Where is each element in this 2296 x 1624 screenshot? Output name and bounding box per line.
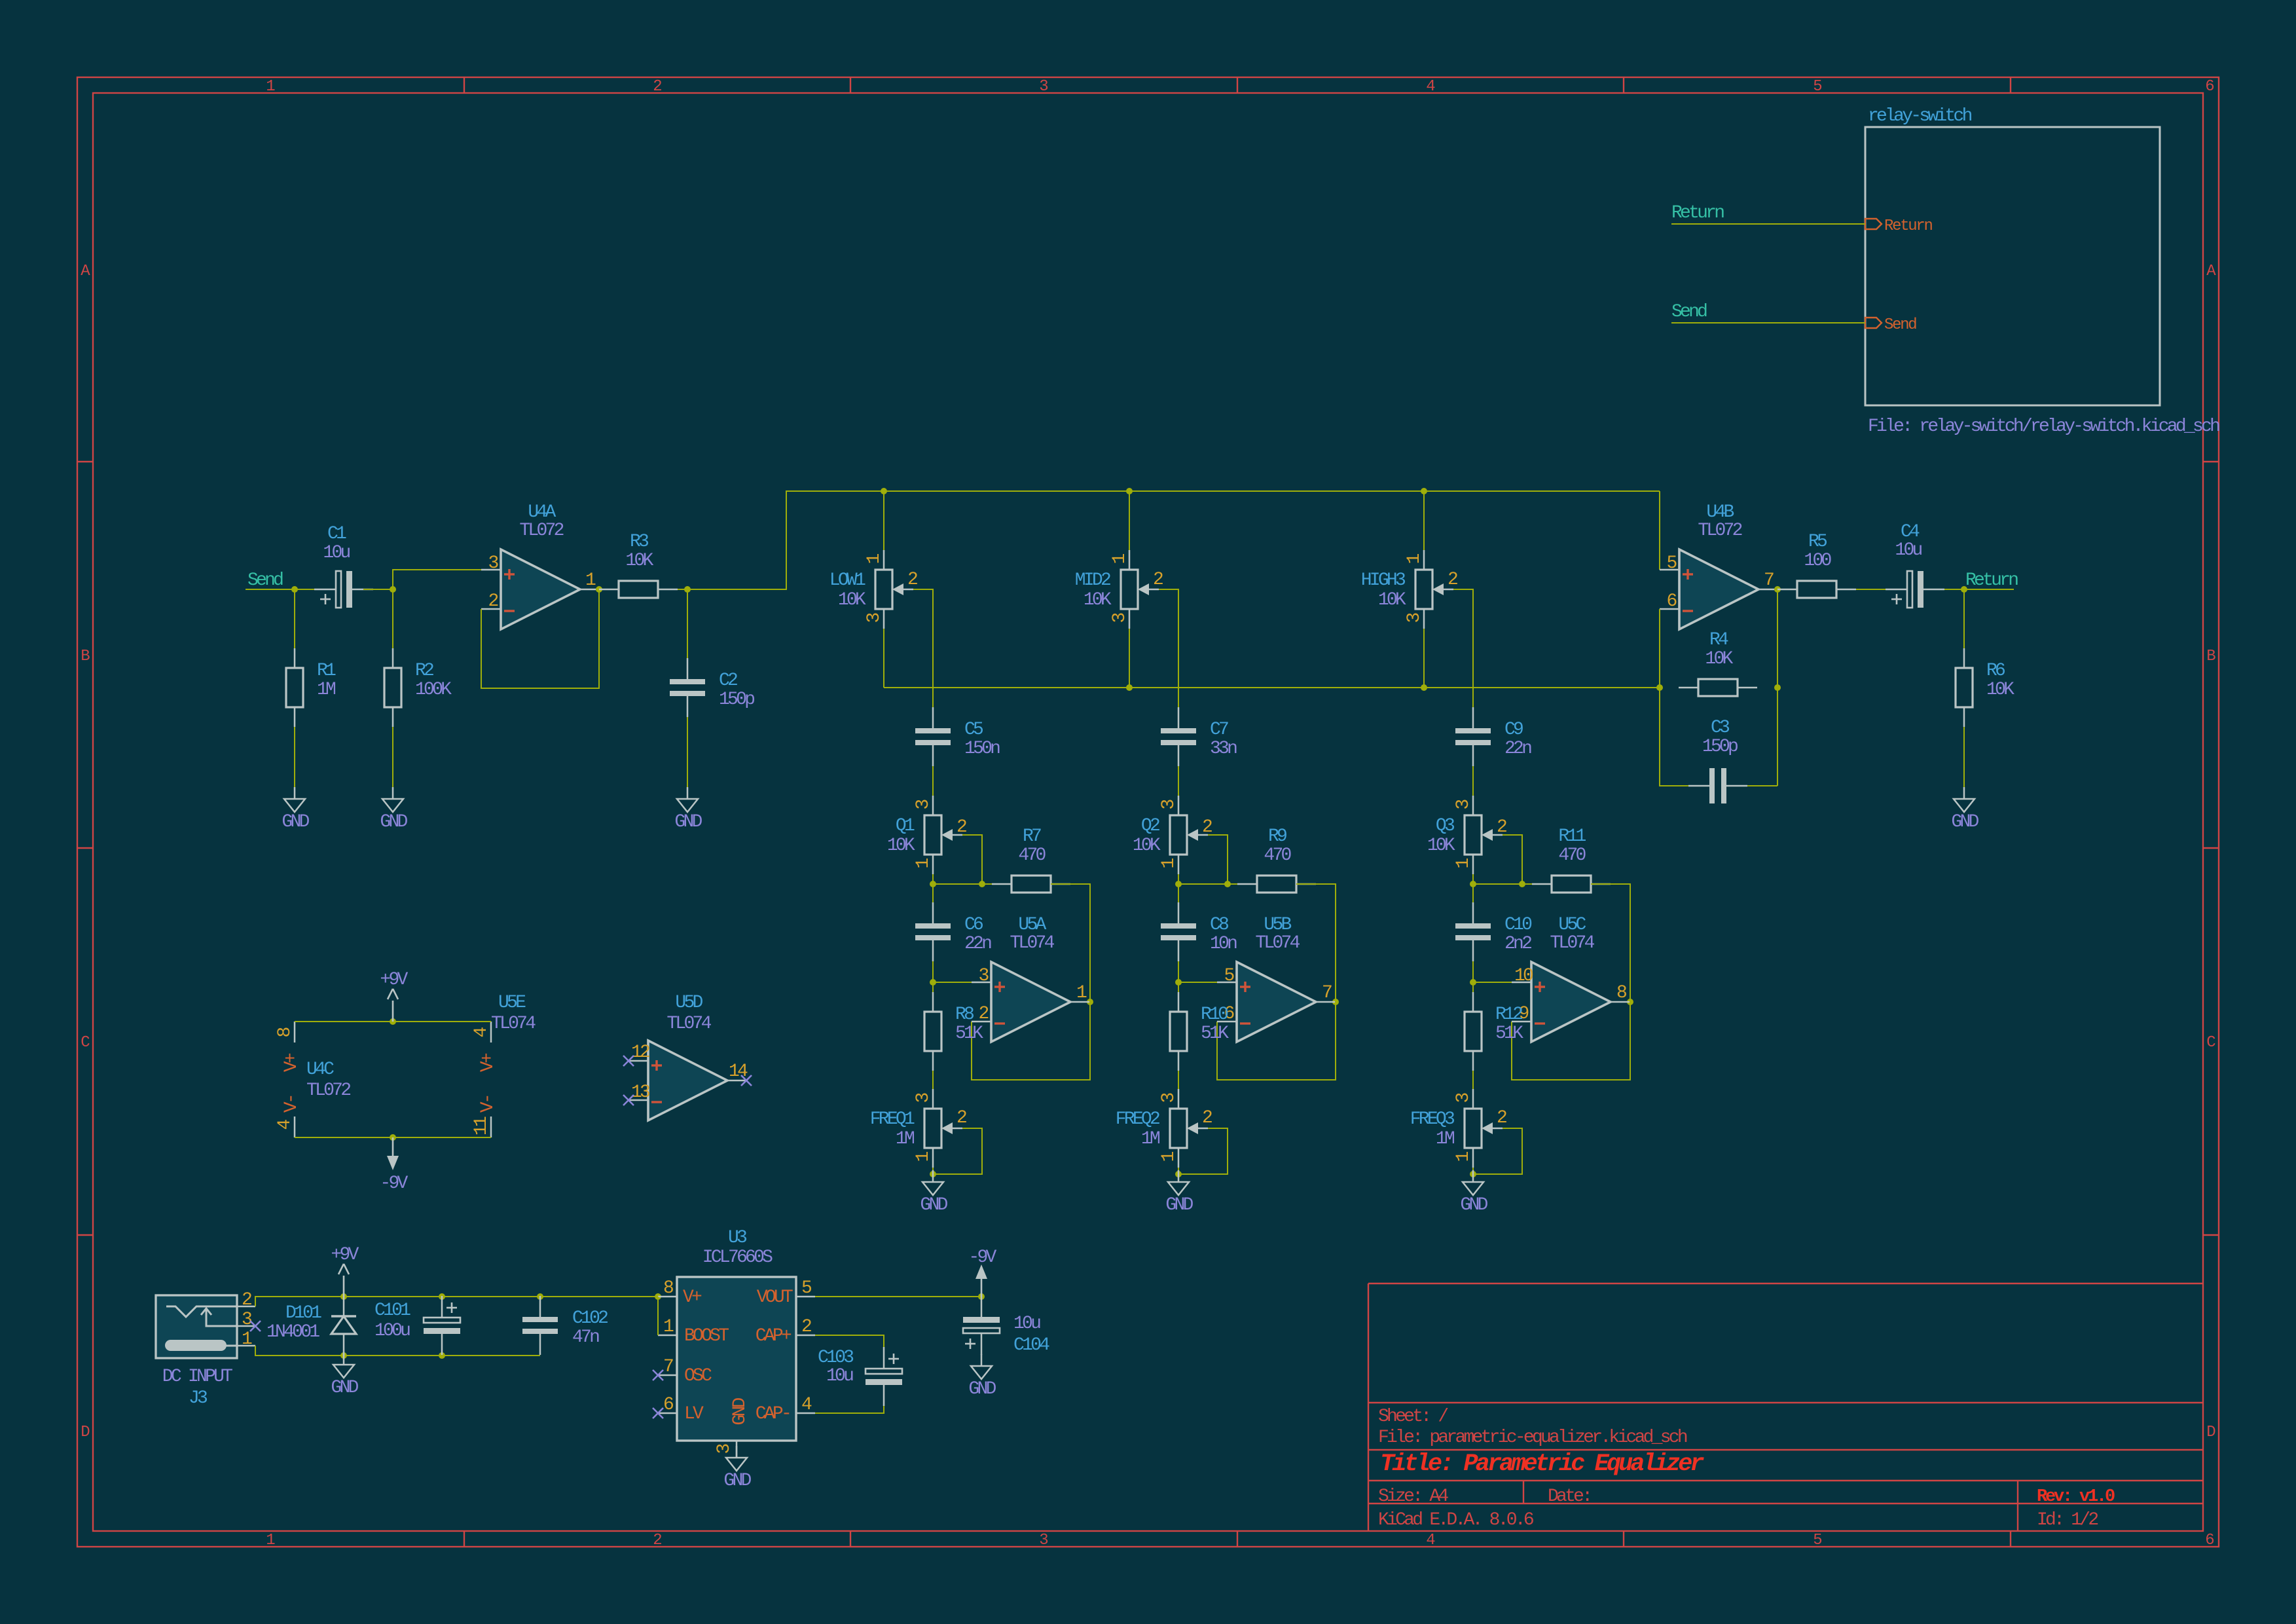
svg-text:10K: 10K xyxy=(625,551,653,571)
wire bus to pot xyxy=(1129,491,1130,550)
svg-text:5: 5 xyxy=(1813,1532,1821,1549)
svg-text:Id: 1/2: Id: 1/2 xyxy=(2037,1510,2098,1530)
junction xyxy=(655,1293,661,1300)
no-connect xyxy=(623,1056,634,1066)
svg-text:U5D: U5D xyxy=(675,993,702,1013)
resistor R12 xyxy=(1465,992,1523,1071)
svg-text:R1: R1 xyxy=(317,661,336,681)
svg-text:V+: V+ xyxy=(478,1053,498,1072)
wire pin6 branch xyxy=(1659,609,1660,688)
svg-text:U3: U3 xyxy=(728,1228,747,1248)
junction xyxy=(1470,881,1476,887)
svg-text:V+: V+ xyxy=(683,1287,702,1308)
svg-text:470: 470 xyxy=(1018,845,1046,866)
hierarchical sheet relay-switch xyxy=(1865,106,2219,437)
svg-text:51K: 51K xyxy=(955,1024,983,1044)
svg-text:CAP+: CAP+ xyxy=(756,1326,792,1346)
junction xyxy=(537,1293,543,1300)
svg-text:10K: 10K xyxy=(1378,590,1406,610)
junction xyxy=(1774,684,1781,691)
svg-text:2: 2 xyxy=(653,1532,661,1549)
power -9V xyxy=(380,1137,408,1194)
svg-text:GND: GND xyxy=(1460,1195,1487,1215)
sheet pin Send xyxy=(1865,316,1916,334)
wire node to R xyxy=(1178,982,1179,992)
svg-text:TL072: TL072 xyxy=(306,1080,350,1101)
svg-text:150n: 150n xyxy=(964,739,1000,759)
wire Return to sheet xyxy=(1671,223,1865,225)
diode D101 xyxy=(266,1297,356,1356)
capacitor C101 xyxy=(424,1296,460,1355)
svg-text:V-: V- xyxy=(478,1096,498,1113)
power +9V xyxy=(380,970,408,1022)
svg-text:47n: 47n xyxy=(572,1327,599,1348)
sheet pin Return xyxy=(1865,217,1933,235)
capacitor C2 xyxy=(670,658,754,717)
no-connect xyxy=(250,1321,261,1331)
wire Q bottom node xyxy=(1473,874,1552,884)
junction xyxy=(1656,684,1663,691)
wire bus to pot xyxy=(883,491,884,550)
wire pot to lower bus xyxy=(1129,629,1130,688)
svg-text:R9: R9 xyxy=(1268,826,1286,847)
svg-text:R10: R10 xyxy=(1201,1005,1228,1025)
trimmer Q2 xyxy=(1133,796,1212,874)
svg-text:470: 470 xyxy=(1264,845,1291,866)
wire feedback loop xyxy=(1512,884,1630,1080)
wire R2 to gnd xyxy=(392,727,393,787)
junction xyxy=(1961,586,1967,593)
potentiometer MID2 xyxy=(1075,550,1163,629)
potentiometer LOW1 xyxy=(829,550,917,629)
IC U3 ICL7660S xyxy=(658,1228,815,1458)
junction xyxy=(930,1171,936,1177)
ground xyxy=(1460,1170,1487,1215)
svg-text:3: 3 xyxy=(1039,78,1048,96)
capacitor C8 xyxy=(1161,902,1237,961)
svg-text:U5A: U5A xyxy=(1018,915,1046,935)
trimmer FREQ3 xyxy=(1410,1089,1506,1168)
svg-text:10K: 10K xyxy=(1084,590,1112,610)
svg-text:GND: GND xyxy=(1165,1195,1193,1215)
capacitor C102 xyxy=(522,1296,558,1355)
svg-text:TL072: TL072 xyxy=(1698,521,1741,541)
svg-text:TL074: TL074 xyxy=(1010,933,1054,953)
svg-text:TL074: TL074 xyxy=(666,1014,711,1034)
wire R to FREQ pot xyxy=(1178,1071,1179,1089)
wire node to C xyxy=(1178,884,1179,904)
svg-text:Send: Send xyxy=(247,570,283,591)
wire feedback loop xyxy=(1217,884,1336,1080)
svg-text:Return: Return xyxy=(1884,217,1933,235)
svg-text:2: 2 xyxy=(1153,570,1163,590)
op-amp U4B xyxy=(1660,502,1777,629)
svg-text:R7: R7 xyxy=(1023,826,1041,847)
svg-text:R6: R6 xyxy=(1986,661,2005,681)
capacitor C7 xyxy=(1161,707,1237,766)
svg-text:1M: 1M xyxy=(1436,1129,1455,1149)
svg-text:FREQ2: FREQ2 xyxy=(1116,1109,1159,1130)
svg-text:Send: Send xyxy=(1671,302,1707,322)
capacitor C1 xyxy=(314,571,373,608)
wire C2 to gnd xyxy=(687,717,688,787)
wire C1 to node xyxy=(363,589,393,590)
svg-text:D: D xyxy=(81,1424,90,1441)
svg-text:ICL7660S: ICL7660S xyxy=(702,1247,773,1268)
svg-text:2: 2 xyxy=(957,1108,966,1128)
svg-text:2: 2 xyxy=(488,591,498,612)
svg-text:6: 6 xyxy=(1666,591,1676,612)
svg-text:10u: 10u xyxy=(323,543,350,563)
power pins U5E xyxy=(471,993,536,1137)
svg-text:10K: 10K xyxy=(1986,680,2014,700)
svg-text:8: 8 xyxy=(1616,983,1626,1003)
svg-text:CAP-: CAP- xyxy=(756,1404,790,1424)
ground xyxy=(1165,1170,1193,1215)
capacitor C6 xyxy=(915,902,991,961)
wire R6 branch xyxy=(1963,589,1965,648)
svg-text:C103: C103 xyxy=(818,1348,854,1368)
svg-text:6: 6 xyxy=(663,1395,673,1415)
junction xyxy=(1421,684,1427,691)
svg-text:7: 7 xyxy=(1764,570,1774,591)
svg-text:D: D xyxy=(2206,1424,2215,1441)
svg-text:6: 6 xyxy=(2205,78,2214,96)
svg-text:GND: GND xyxy=(380,812,407,832)
svg-text:U4C: U4C xyxy=(306,1060,334,1080)
svg-text:GND: GND xyxy=(331,1378,358,1398)
svg-text:51K: 51K xyxy=(1495,1024,1523,1044)
junction xyxy=(930,979,936,986)
no-connect xyxy=(623,1095,634,1105)
wire pot to lower bus xyxy=(883,629,884,688)
junction xyxy=(291,586,298,593)
svg-text:C: C xyxy=(81,1034,90,1052)
capacitor C103 xyxy=(866,1347,902,1406)
svg-text:1: 1 xyxy=(266,78,275,96)
capacitor C104 xyxy=(963,1296,1000,1355)
wire R to FREQ pot xyxy=(1472,1071,1474,1089)
wire R5 to C4 xyxy=(1856,589,1886,590)
wire Q bottom node xyxy=(1178,874,1257,884)
ground xyxy=(920,1170,947,1215)
wire FREQ bottom xyxy=(1178,1168,1179,1174)
svg-text:10K: 10K xyxy=(838,590,866,610)
wire FREQ wiper loop xyxy=(933,1128,982,1174)
junction xyxy=(978,1293,985,1300)
power -9V xyxy=(968,1247,996,1297)
resistor R2 xyxy=(384,648,452,727)
trimmer Q3 xyxy=(1427,796,1506,874)
svg-text:GND: GND xyxy=(1951,812,1978,832)
svg-text:VOUT: VOUT xyxy=(757,1287,793,1308)
svg-text:4: 4 xyxy=(1426,1532,1435,1549)
svg-text:1M: 1M xyxy=(1141,1129,1160,1149)
capacitor C5 xyxy=(915,707,1000,766)
svg-text:C102: C102 xyxy=(572,1308,608,1329)
wire node to R xyxy=(932,982,934,992)
capacitor C10 xyxy=(1455,902,1532,961)
svg-text:-9V: -9V xyxy=(380,1173,408,1194)
junction xyxy=(340,1293,347,1300)
svg-text:3: 3 xyxy=(1039,1532,1048,1549)
svg-text:C1: C1 xyxy=(327,524,346,544)
svg-text:+9V: +9V xyxy=(331,1245,359,1265)
wire R3 to bus xyxy=(678,491,1660,589)
svg-text:33n: 33n xyxy=(1210,739,1237,759)
svg-text:C: C xyxy=(2206,1034,2215,1052)
wire R1 to gnd xyxy=(294,727,295,787)
svg-text:6: 6 xyxy=(2205,1532,2214,1549)
junction xyxy=(1175,979,1182,986)
svg-text:10K: 10K xyxy=(1705,649,1733,669)
svg-text:10u: 10u xyxy=(826,1366,853,1386)
resistor R4 xyxy=(1679,630,1757,696)
junction xyxy=(1087,999,1093,1005)
svg-text:TL074: TL074 xyxy=(1255,933,1300,953)
svg-text:TL074: TL074 xyxy=(1550,933,1594,953)
junction xyxy=(1519,881,1525,887)
svg-text:C7: C7 xyxy=(1210,720,1228,740)
capacitor C3 xyxy=(1688,768,1747,803)
svg-text:R2: R2 xyxy=(415,661,433,681)
svg-text:LV: LV xyxy=(684,1404,704,1424)
svg-text:KiCad E.D.A. 8.0.6: KiCad E.D.A. 8.0.6 xyxy=(1378,1510,1533,1530)
wire CAP+ to C103 xyxy=(815,1335,884,1347)
svg-text:A: A xyxy=(81,263,90,280)
title block xyxy=(1368,1283,2203,1531)
svg-text:HIGH3: HIGH3 xyxy=(1361,570,1406,591)
svg-text:C2: C2 xyxy=(719,671,737,691)
op-amp U5C xyxy=(1512,915,1630,1042)
wire C3 loop xyxy=(1660,688,1688,786)
svg-text:Date:: Date: xyxy=(1548,1486,1590,1507)
wire node to C xyxy=(932,884,934,904)
svg-text:Q1: Q1 xyxy=(896,816,915,836)
svg-text:C8: C8 xyxy=(1210,915,1228,935)
wire C103 to CAP- xyxy=(815,1406,884,1413)
svg-text:100K: 100K xyxy=(415,680,452,700)
ground xyxy=(968,1354,996,1399)
junction xyxy=(340,1352,347,1359)
junction xyxy=(1421,488,1427,494)
svg-text:C6: C6 xyxy=(964,915,983,935)
svg-text:100u: 100u xyxy=(374,1321,410,1341)
wire FREQ wiper loop xyxy=(1473,1128,1522,1174)
trimmer FREQ2 xyxy=(1116,1089,1212,1168)
wire bus to pot xyxy=(1423,491,1425,550)
svg-text:Rev: v1.0: Rev: v1.0 xyxy=(2037,1487,2115,1507)
wire U4A feedback xyxy=(481,589,599,688)
svg-text:5: 5 xyxy=(1813,78,1821,96)
svg-text:Q2: Q2 xyxy=(1141,816,1159,836)
svg-text:51K: 51K xyxy=(1201,1024,1229,1044)
svg-text:+9V: +9V xyxy=(380,970,408,990)
resistor R7 xyxy=(992,826,1070,893)
junction xyxy=(930,881,936,887)
junction xyxy=(1470,979,1476,986)
svg-text:LOW1: LOW1 xyxy=(829,570,866,591)
svg-text:DC INPUT: DC INPUT xyxy=(162,1367,232,1387)
junction xyxy=(390,1018,396,1025)
svg-text:U5E: U5E xyxy=(498,993,526,1013)
wire C to +input node xyxy=(1473,961,1512,982)
svg-text:150p: 150p xyxy=(719,690,754,710)
resistor R8 xyxy=(924,992,983,1071)
junction xyxy=(1224,881,1231,887)
ground xyxy=(380,787,407,832)
svg-text:100: 100 xyxy=(1804,551,1831,571)
svg-text:File: relay-switch/relay-switc: File: relay-switch/relay-switch.kicad_sc… xyxy=(1868,416,2219,437)
svg-text:2: 2 xyxy=(801,1317,811,1337)
capacitor C9 xyxy=(1455,707,1531,766)
svg-text:2: 2 xyxy=(907,570,917,590)
wire bus to U4B pin5 xyxy=(1659,491,1660,570)
svg-text:GND: GND xyxy=(730,1397,750,1425)
junction xyxy=(1627,999,1633,1005)
ground xyxy=(282,787,309,832)
svg-text:2n2: 2n2 xyxy=(1504,934,1531,954)
svg-text:13: 13 xyxy=(631,1082,650,1103)
svg-text:Title: Parametric Equalizer: Title: Parametric Equalizer xyxy=(1380,1450,1704,1478)
resistor R5 xyxy=(1777,532,1856,598)
wire FREQ wiper loop xyxy=(1178,1128,1228,1174)
svg-text:2: 2 xyxy=(1202,1108,1212,1128)
wire VOUT xyxy=(815,1296,981,1297)
svg-text:11: 11 xyxy=(471,1116,492,1135)
svg-text:1M: 1M xyxy=(896,1129,915,1149)
wire pot wiper down xyxy=(1453,589,1473,717)
svg-text:V+: V+ xyxy=(282,1053,302,1072)
wire FREQ bottom xyxy=(1472,1168,1474,1174)
svg-text:470: 470 xyxy=(1558,845,1586,866)
svg-text:R3: R3 xyxy=(630,532,649,552)
no-connect xyxy=(653,1408,663,1418)
svg-text:C5: C5 xyxy=(964,720,983,740)
svg-text:10n: 10n xyxy=(1210,934,1237,954)
svg-text:-9V: -9V xyxy=(968,1247,996,1268)
svg-text:12: 12 xyxy=(631,1043,649,1063)
op-amp U5D xyxy=(629,993,748,1120)
ground xyxy=(723,1446,751,1491)
svg-text:7: 7 xyxy=(1322,983,1332,1003)
svg-text:C4: C4 xyxy=(1901,522,1920,542)
ground xyxy=(1951,787,1978,832)
junction xyxy=(881,488,887,494)
junction xyxy=(1175,881,1182,887)
wire cap to Q pot xyxy=(932,766,934,796)
wire output vertical xyxy=(1777,589,1778,786)
wire cap to Q pot xyxy=(1472,766,1474,796)
wire Q wiper xyxy=(1503,835,1522,884)
op-amp U4A xyxy=(481,502,599,629)
svg-text:File: parametric-equalizer.kic: File: parametric-equalizer.kicad_sch xyxy=(1378,1428,1687,1448)
no-connect xyxy=(653,1370,663,1380)
svg-text:B: B xyxy=(81,648,90,665)
wire gnd rail xyxy=(255,1346,540,1356)
svg-text:R4: R4 xyxy=(1709,630,1728,650)
svg-text:R8: R8 xyxy=(955,1005,974,1025)
wire R1 branch xyxy=(294,589,295,648)
ground xyxy=(331,1353,358,1398)
junction xyxy=(1175,1171,1182,1177)
potentiometer HIGH3 xyxy=(1361,550,1457,629)
op-amp U5B xyxy=(1217,915,1335,1042)
svg-text:FREQ3: FREQ3 xyxy=(1410,1109,1455,1130)
op-amp U5A xyxy=(972,915,1089,1042)
capacitor C4 xyxy=(1886,571,1944,608)
wire R6 to gnd xyxy=(1963,727,1965,787)
svg-text:7: 7 xyxy=(663,1357,673,1377)
svg-text:10K: 10K xyxy=(887,836,915,856)
svg-text:J3: J3 xyxy=(189,1388,208,1409)
wire R to FREQ pot xyxy=(932,1071,934,1089)
svg-text:relay-switch: relay-switch xyxy=(1868,106,1972,126)
no-connect xyxy=(741,1075,752,1086)
wire BOOST branch xyxy=(657,1297,659,1335)
wire node to R xyxy=(1472,982,1474,992)
trimmer FREQ1 xyxy=(870,1089,966,1168)
ground xyxy=(674,787,702,832)
svg-text:D101: D101 xyxy=(285,1303,321,1323)
resistor R11 xyxy=(1532,826,1611,893)
svg-text:A: A xyxy=(2206,263,2216,280)
svg-text:U5B: U5B xyxy=(1264,915,1291,935)
svg-text:10u: 10u xyxy=(1013,1314,1040,1334)
svg-text:C9: C9 xyxy=(1504,720,1523,740)
wire V+ rail xyxy=(295,1021,491,1022)
trimmer Q1 xyxy=(887,796,966,874)
wire V- rail xyxy=(295,1137,491,1138)
wire Q bottom node xyxy=(933,874,1011,884)
junction xyxy=(1470,1171,1476,1177)
junction xyxy=(596,586,602,593)
svg-text:B: B xyxy=(2206,648,2215,665)
svg-text:U4B: U4B xyxy=(1706,502,1734,523)
power pins U4C xyxy=(275,1022,350,1137)
svg-text:8: 8 xyxy=(663,1278,673,1299)
resistor R3 xyxy=(599,532,678,598)
svg-text:U5C: U5C xyxy=(1558,915,1586,935)
svg-text:Size: A4: Size: A4 xyxy=(1378,1486,1448,1507)
svg-text:U4A: U4A xyxy=(528,502,556,523)
wire FREQ bottom xyxy=(932,1168,934,1174)
svg-text:2: 2 xyxy=(242,1290,251,1310)
svg-text:C3: C3 xyxy=(1711,718,1730,738)
junction xyxy=(1332,999,1339,1005)
wire Send input xyxy=(246,589,324,590)
power +9V xyxy=(331,1245,359,1297)
junction xyxy=(979,881,985,887)
resistor R1 xyxy=(286,648,336,727)
junction xyxy=(1774,586,1781,593)
svg-text:V-: V- xyxy=(282,1096,302,1113)
junction xyxy=(390,586,396,593)
wire to U4A pin3 xyxy=(393,570,481,589)
svg-text:MID2: MID2 xyxy=(1075,570,1110,591)
svg-text:R12: R12 xyxy=(1495,1005,1522,1025)
wire feedback loop xyxy=(972,884,1090,1080)
junction xyxy=(439,1293,445,1300)
svg-text:GND: GND xyxy=(968,1379,996,1399)
svg-text:Return: Return xyxy=(1965,570,2018,591)
wire Send to sheet xyxy=(1671,322,1865,323)
svg-text:10u: 10u xyxy=(1895,540,1922,561)
svg-text:TL074: TL074 xyxy=(491,1014,536,1034)
svg-text:GND: GND xyxy=(723,1471,751,1491)
wire Q wiper xyxy=(1208,835,1228,884)
svg-text:GND: GND xyxy=(282,812,309,832)
